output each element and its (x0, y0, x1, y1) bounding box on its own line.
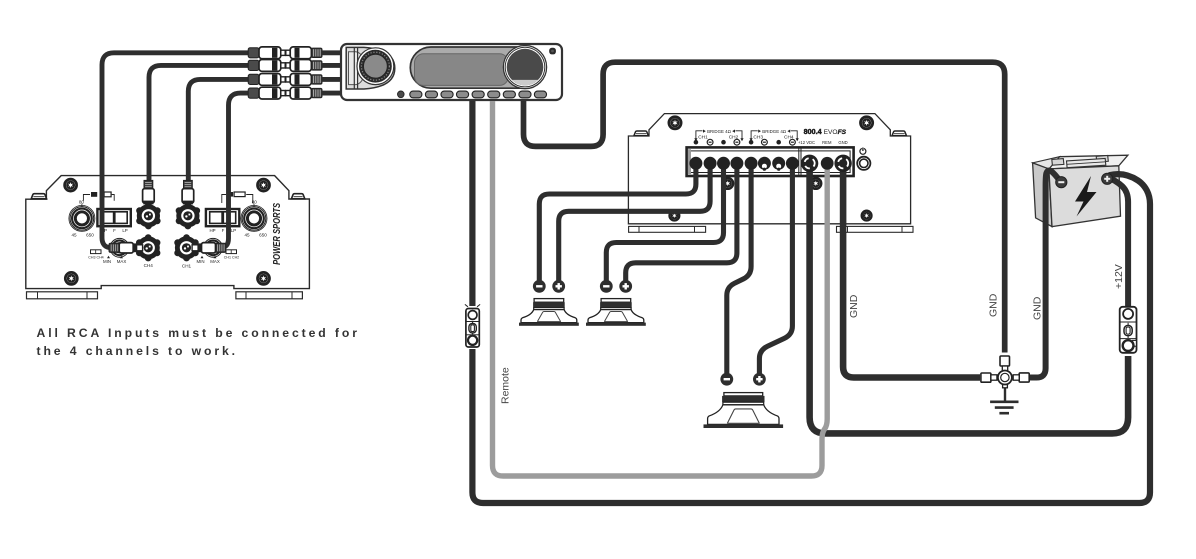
svg-text:MAX: MAX (210, 259, 220, 264)
RCA plug into CH3 (143, 180, 155, 204)
chassis ground symbol (990, 402, 1018, 413)
U1 gain knob right (204, 238, 223, 257)
svg-text:MIN: MIN (103, 259, 111, 264)
U1 MIN MAX labels (107, 256, 110, 258)
svg-text:LP: LP (122, 228, 127, 233)
svg-text:HP: HP (209, 228, 215, 233)
svg-text:+12 VDC: +12 VDC (798, 140, 815, 145)
RCA jack CH3 (U1 top-left) (136, 202, 160, 229)
fuse holder F2 (head unit lead) (465, 304, 480, 347)
U1 crossover switch left (97, 209, 130, 226)
svg-text:GND: GND (988, 293, 1000, 317)
screw U2 top-left (669, 117, 681, 129)
U2 channel labels and bridge brackets (696, 131, 703, 139)
terminal + speaker SPK3 (bridged) (753, 373, 766, 386)
svg-text:All RCA Inputs must be connect: All RCA Inputs must be connected for (37, 326, 360, 340)
svg-text:the 4 channels to work.: the 4 channels to work. (37, 344, 238, 358)
head unit (car stereo) body (341, 44, 562, 100)
screw U2 strip-right (810, 178, 821, 189)
svg-text:MIN: MIN (196, 259, 204, 264)
wire U2 +12VDC to fuse F1 (810, 164, 1129, 433)
wire W3 RCA cable 3 (to CH2) (188, 79, 248, 185)
wire battery - to junction (1028, 171, 1060, 378)
U1 small channel tags (91, 250, 102, 254)
svg-text:650: 650 (86, 233, 94, 238)
svg-text:800.4 EVOFS: 800.4 EVOFS (804, 127, 847, 136)
terminal - speaker SPK2 (600, 280, 613, 293)
head unit small round button (398, 91, 405, 98)
svg-text:LP: LP (231, 228, 236, 233)
RCA coupler pair row 4 (248, 87, 322, 99)
terminal + speaker SPK2 (619, 280, 632, 293)
RCA coupler pair row 1 (248, 47, 322, 59)
speaker SPK3 (bridged) (704, 393, 784, 428)
U1 mounting tab left (31, 194, 46, 199)
U2 mounting tab left (634, 131, 649, 136)
U1 foot left (27, 292, 98, 299)
U2 foot right (837, 226, 914, 232)
RCA jack CH2 (U1 top-right) (176, 202, 200, 229)
RCA plug into CH2 (182, 180, 194, 204)
battery lightning bolt (1075, 176, 1097, 217)
U2 foot left (629, 226, 706, 232)
wire CH2- to speaker SPK2 (606, 164, 723, 282)
RCA jack CH4 (U1 bottom-left) (136, 234, 160, 261)
svg-text:CH4: CH4 (144, 263, 154, 268)
svg-text:GND: GND (838, 140, 847, 145)
U2 speaker terminal polarity dots (694, 139, 796, 145)
U2 power terminals +12VDC REM GND (801, 155, 852, 172)
battery terminal + (1102, 173, 1113, 184)
svg-text:GND: GND (848, 294, 860, 318)
terminal - speaker SPK1 (533, 280, 546, 293)
U2 speaker terminals CH1..CH4 (689, 157, 799, 171)
svg-text:CH3 CH4: CH3 CH4 (88, 255, 103, 259)
screw U2 bottom-right (862, 211, 872, 221)
junction node (ground distribution tee) (981, 356, 1029, 401)
svg-text:BRIDGE 4Ω: BRIDGE 4Ω (762, 129, 786, 134)
RCA plug into CH4 (109, 243, 143, 253)
battery BT1 body (1033, 155, 1128, 226)
svg-text:CH1: CH1 (698, 135, 708, 141)
svg-text:45: 45 (244, 233, 250, 238)
wire CH2+ to speaker SPK2 (626, 164, 737, 282)
wire remote turn-on (REM to head unit) (493, 101, 828, 476)
wire CH3- bridged to speaker SPK3 (727, 164, 751, 375)
U2 mounting tab right (892, 131, 907, 136)
U1 crossover freq knob right (241, 204, 267, 232)
svg-text:CH1 CH2: CH1 CH2 (224, 255, 239, 259)
battery terminal - (1056, 177, 1067, 188)
U1 crossover freq knob left (69, 204, 95, 232)
wire W4 RCA cable 4 (to CH1) (220, 93, 249, 248)
RCA jack CH1 (U1 bottom-right) (174, 234, 198, 261)
U2 power button (857, 147, 870, 170)
head unit display (410, 47, 545, 88)
wire W2 RCA cable 2 (to CH3) (149, 65, 249, 185)
screw U1 bottom-left (65, 272, 77, 284)
amplifier U2 800.4 EVO FS body (628, 114, 910, 224)
U1 mounting tab right (291, 194, 304, 199)
svg-text:BRIDGE 4Ω: BRIDGE 4Ω (707, 129, 731, 134)
svg-text:650: 650 (259, 233, 267, 238)
U1 switch bracket left (83, 195, 90, 201)
wire RCA stub row 1 to head unit (322, 50, 342, 55)
U2 terminal strip (687, 147, 854, 176)
svg-text:Remote: Remote (500, 367, 512, 404)
head unit button row (410, 91, 547, 98)
RCA coupler pair row 3 (248, 74, 322, 86)
head unit power button (549, 48, 556, 55)
svg-text:45: 45 (71, 233, 77, 238)
screw U1 top-right (258, 179, 270, 191)
wire CH4+ bridged to speaker SPK3 (759, 164, 792, 375)
screw U2 top-right (861, 117, 873, 129)
svg-text:REM: REM (822, 140, 832, 145)
svg-text:F: F (222, 228, 225, 233)
wire RCA stub row 4 to head unit (322, 91, 342, 96)
terminal - speaker SPK3 (bridged) (720, 373, 733, 386)
wire head unit +12V battery (lower run) (472, 174, 1150, 503)
svg-text:+12V: +12V (1113, 264, 1125, 289)
RCA plug into CH1 (192, 243, 226, 253)
svg-text:CH3: CH3 (753, 135, 763, 141)
U1 gain knob left (110, 238, 129, 257)
U1 crossover switch right (206, 209, 239, 226)
speaker SPK1 (519, 299, 579, 326)
svg-text:GND: GND (1031, 296, 1043, 320)
head unit right knob (503, 46, 546, 89)
wire U2 GND to junction (843, 164, 980, 378)
wire W1 RCA cable 1 (to CH4) (102, 53, 249, 248)
screw U1 top-left (65, 179, 77, 191)
RCA coupler pair row 2 (248, 60, 322, 72)
svg-text:CH1: CH1 (182, 264, 192, 269)
speaker SPK2 (586, 299, 646, 326)
wire fuse F1 to battery + (1108, 177, 1129, 312)
svg-text:POWER SPORTS: POWER SPORTS (272, 203, 283, 265)
head unit volume knob bezel (346, 47, 395, 89)
amplifier U1 POWER SPORTS body (26, 176, 310, 289)
terminal + speaker SPK1 (552, 280, 565, 293)
U1 foot right (236, 292, 303, 299)
svg-text:MAX: MAX (117, 259, 127, 264)
screw U2 bottom-left (670, 211, 680, 221)
U1 switch bracket right (222, 195, 226, 204)
wire CH1- to speaker SPK1 (539, 164, 696, 282)
wire RCA stub row 3 to head unit (322, 77, 342, 82)
screw U2 strip-left (722, 178, 733, 189)
wire head unit ground to junction (524, 62, 1005, 352)
fuse holder F1 (+12V main) (1120, 307, 1137, 353)
wire head unit +12V battery (upper) (469, 101, 475, 306)
screw U1 bottom-right (258, 272, 270, 284)
svg-text:F: F (113, 228, 116, 233)
wire RCA stub row 2 to head unit (322, 63, 342, 68)
wire CH1+ to speaker SPK1 (559, 164, 710, 282)
